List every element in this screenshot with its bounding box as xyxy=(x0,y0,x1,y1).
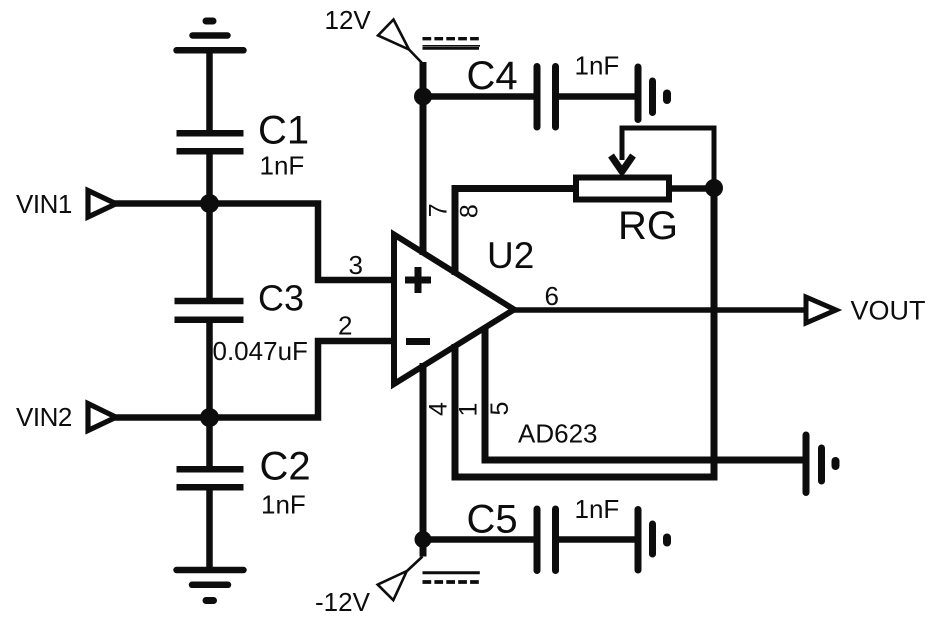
svg-text:C5: C5 xyxy=(467,498,518,542)
wire C4 to ground xyxy=(558,93,636,100)
svg-text:1nF: 1nF xyxy=(575,494,620,524)
wire top ground to C1 xyxy=(206,50,213,134)
wire VIN1 node to op-amp + input (pin 3) xyxy=(210,204,398,281)
svg-text:6: 6 xyxy=(545,281,559,311)
wire -12V node to C5 xyxy=(423,536,534,543)
wire VIN2 node to C2 xyxy=(206,418,213,468)
node RG junction xyxy=(705,179,723,197)
svg-text:-12V: -12V xyxy=(315,587,371,617)
svg-text:VIN2: VIN2 xyxy=(16,402,72,432)
wire 12V stub up xyxy=(420,62,427,97)
ground GND top-left (flipped) xyxy=(177,21,244,50)
wire VIN2 node to op-amp - input (pin 2) xyxy=(210,341,398,418)
wire VIN1 to junction xyxy=(114,200,210,207)
svg-text:C3: C3 xyxy=(258,278,304,319)
wire pin 7 stub from 12V xyxy=(420,97,427,256)
node -12V junction xyxy=(415,531,432,548)
wire VIN2 to junction xyxy=(114,414,210,421)
svg-text:12V: 12V xyxy=(325,5,372,35)
potentiometer RG body xyxy=(576,178,669,200)
svg-text:4: 4 xyxy=(425,402,453,416)
port VIN1 flag xyxy=(88,191,116,218)
svg-text:C1: C1 xyxy=(258,109,309,153)
capacitor C1 xyxy=(177,133,244,151)
wire C1 to VIN1 node xyxy=(206,151,213,204)
svg-text:5: 5 xyxy=(486,402,514,416)
wire -12V stub down xyxy=(420,540,427,557)
svg-text:U2: U2 xyxy=(487,235,534,276)
svg-text:VIN1: VIN1 xyxy=(16,189,72,219)
op-amp U2 triangle xyxy=(394,235,514,385)
svg-text:8: 8 xyxy=(456,204,484,218)
ground GND C4 (rotated) xyxy=(638,67,667,120)
capacitor C2 xyxy=(177,469,244,487)
RG wiper arrowhead xyxy=(611,156,633,172)
wire C2 to bottom ground xyxy=(206,487,213,570)
svg-text:RG: RG xyxy=(618,204,678,248)
wire VIN1 node to C3 xyxy=(206,204,213,300)
svg-text:1nF: 1nF xyxy=(575,51,620,81)
wire pin 5 to right ground xyxy=(485,327,803,460)
svg-text:2: 2 xyxy=(338,311,352,341)
svg-text:1: 1 xyxy=(455,403,483,417)
svg-text:0.047uF: 0.047uF xyxy=(213,336,308,366)
capacitor C3 xyxy=(175,301,244,320)
svg-text:AD623: AD623 xyxy=(518,419,598,449)
wire C3 to VIN2 node xyxy=(206,320,213,418)
svg-text:1nF: 1nF xyxy=(260,151,305,181)
svg-text:7: 7 xyxy=(425,203,453,217)
node 12V junction xyxy=(414,88,432,106)
node VIN1 junction xyxy=(200,194,219,213)
wire 12V node to C4 xyxy=(423,93,534,100)
capacitor C5 xyxy=(537,509,556,571)
ground GND pin5 (rotated) xyxy=(806,435,836,493)
ground GND bottom-left xyxy=(177,570,244,601)
svg-text:C2: C2 xyxy=(260,445,311,489)
svg-text:3: 3 xyxy=(349,250,363,280)
svg-text:C4: C4 xyxy=(467,54,518,98)
wire pin 4 stub to -12V xyxy=(420,363,427,540)
capacitor C4 xyxy=(537,67,556,128)
wire RG wiper feedback loop xyxy=(622,128,714,188)
svg-text:1nF: 1nF xyxy=(261,490,306,520)
ground GND C5 (rotated) xyxy=(638,510,667,571)
svg-text:VOUT: VOUT xyxy=(851,296,926,326)
wire RG right to node xyxy=(669,185,714,192)
node VIN2 junction xyxy=(200,408,219,427)
wire pin 8 stub xyxy=(455,189,573,276)
wire output pin 6 to VOUT xyxy=(514,307,804,313)
wire pin 1 to riser xyxy=(455,188,714,477)
port VIN2 flag xyxy=(88,404,116,431)
power flag 12V xyxy=(378,20,423,64)
op-amp - input symbol xyxy=(406,338,430,345)
port VOUT arrow xyxy=(806,297,836,323)
annotation dashes bottom xyxy=(423,573,481,582)
annotation dashes top xyxy=(423,39,481,49)
power flag -12V xyxy=(378,557,423,601)
op-amp + input symbol xyxy=(405,267,431,293)
wire C5 to ground xyxy=(558,536,636,543)
